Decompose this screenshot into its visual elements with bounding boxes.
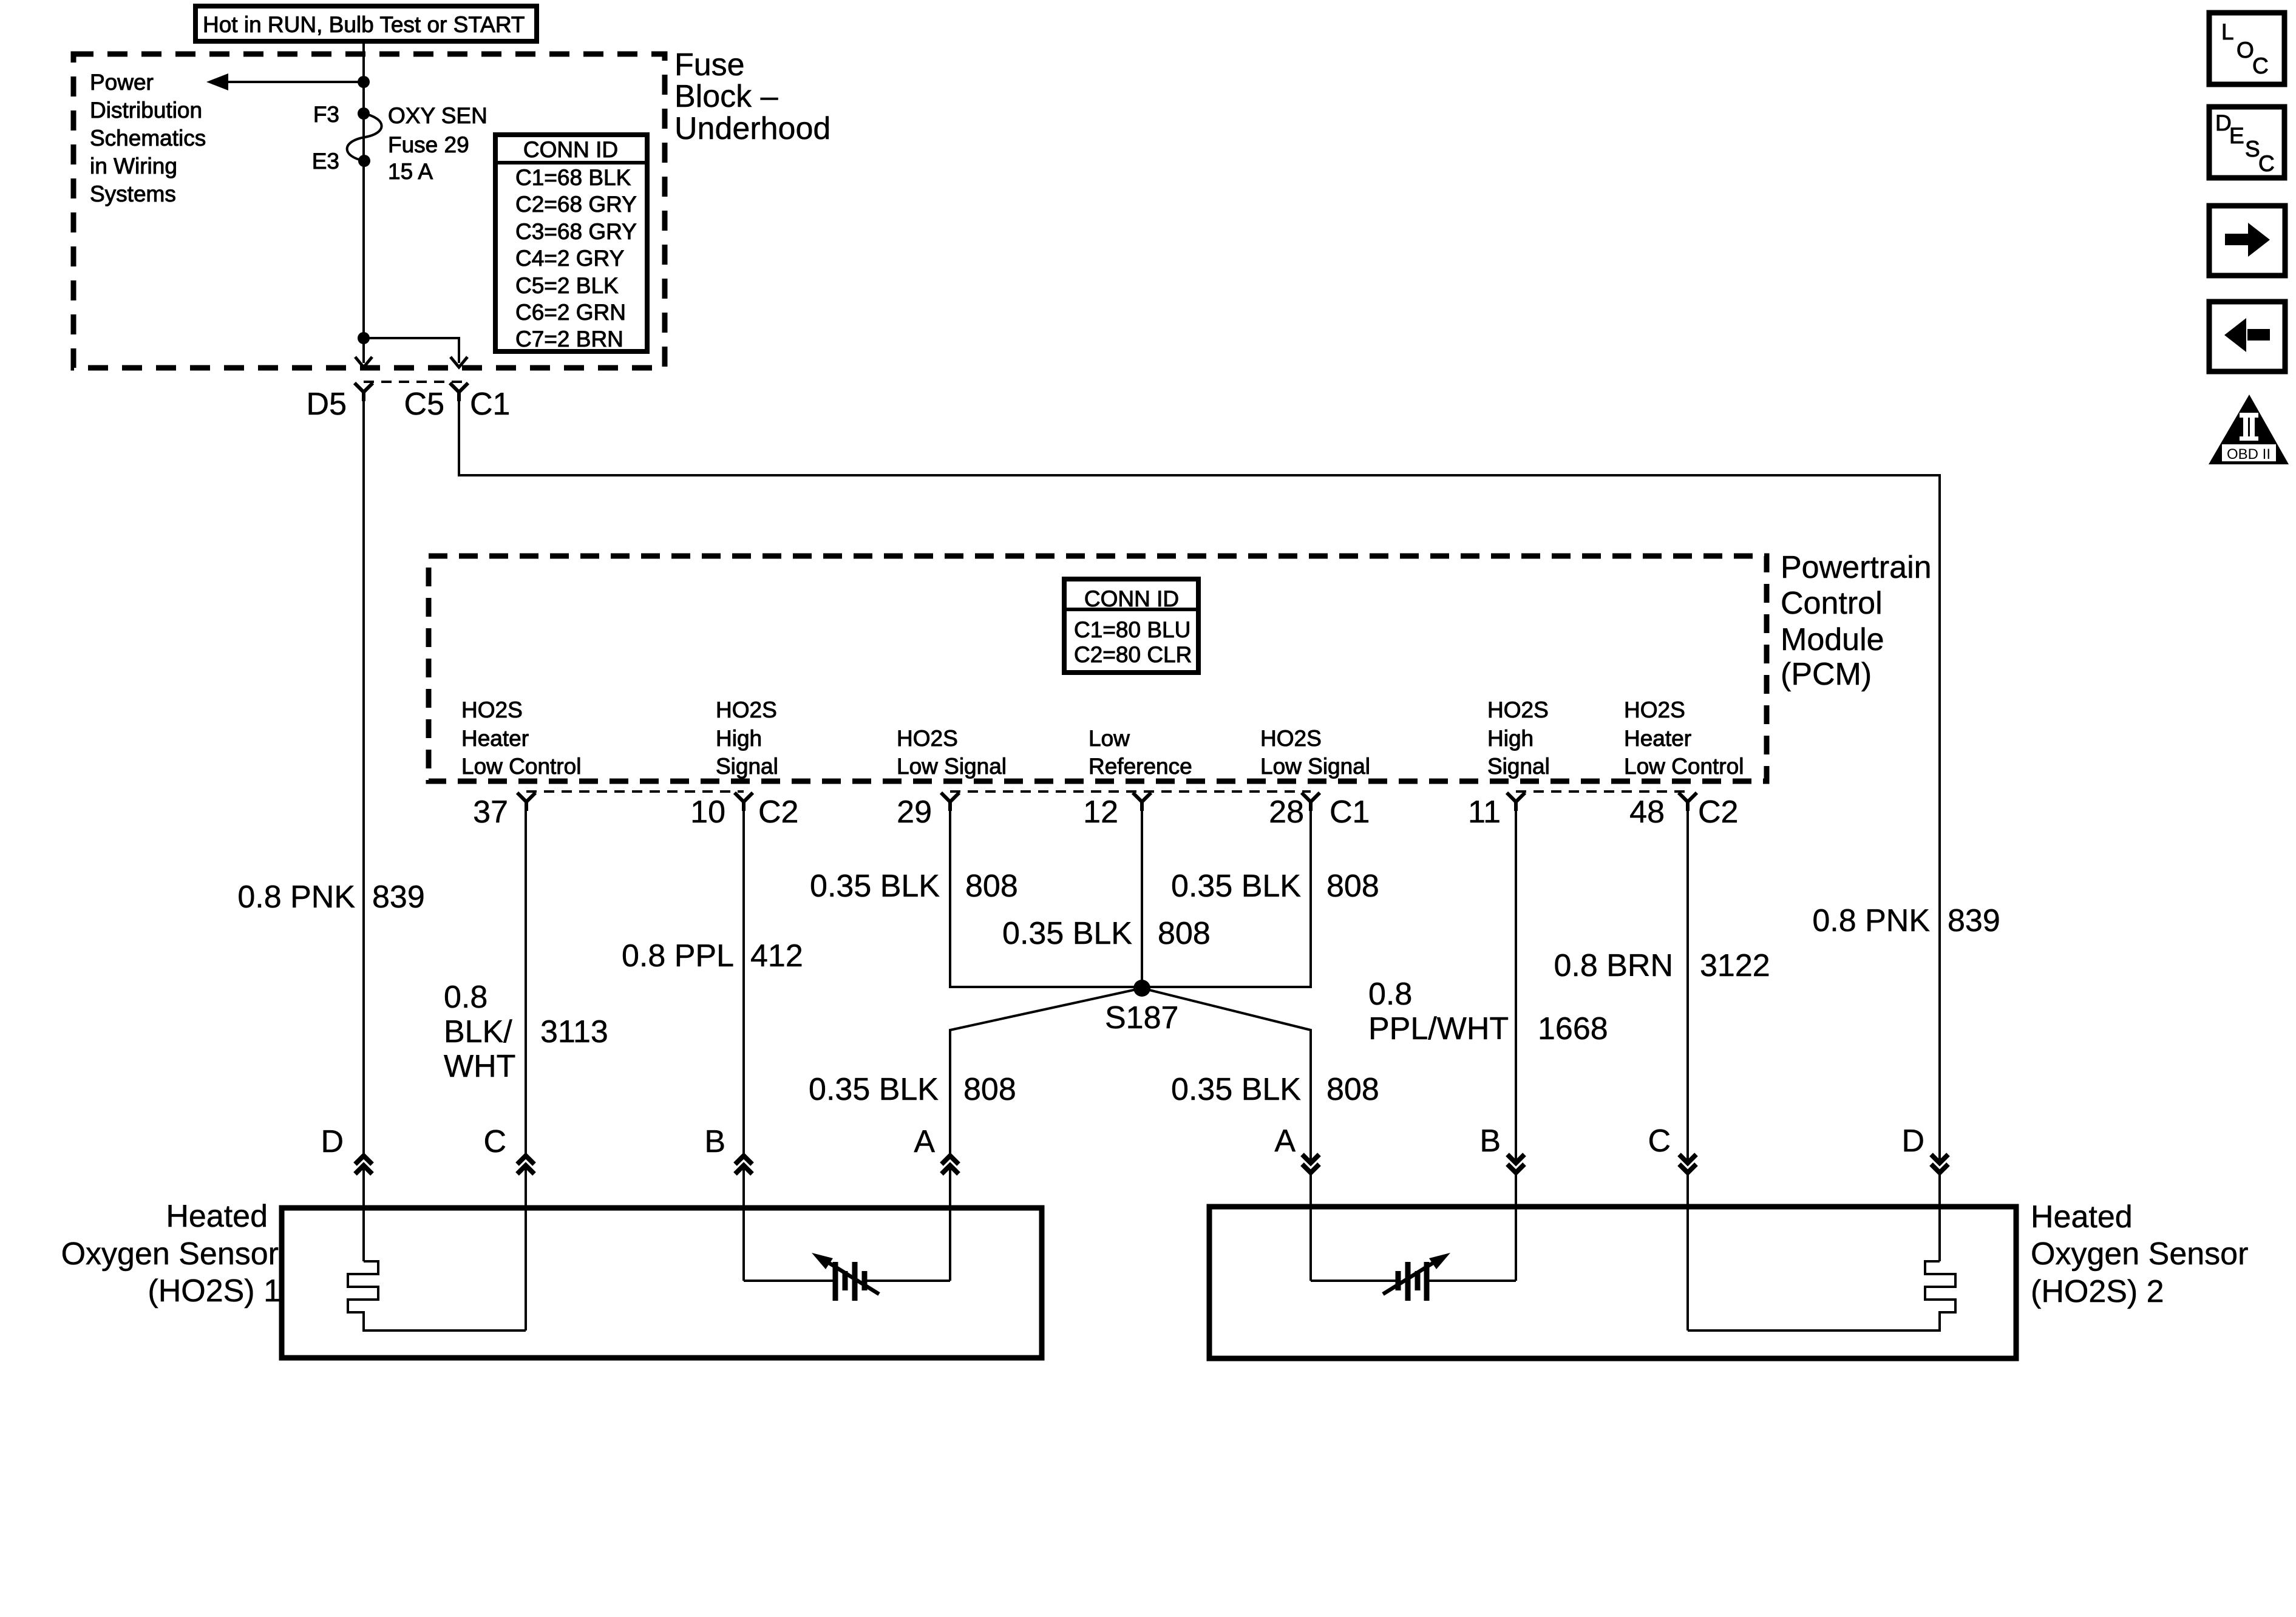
connector Y at C5/C1 xyxy=(450,383,468,401)
wire pin12 to S187 xyxy=(1141,811,1143,988)
label Power Distribution Schematics in Wiring Systems xyxy=(90,70,206,206)
svg-text:10: 10 xyxy=(690,795,725,830)
svg-text:HO2S: HO2S xyxy=(1624,697,1685,722)
hot-in-run box xyxy=(195,6,537,41)
svg-text:Heater: Heater xyxy=(1624,726,1691,751)
label Heated Oxygen Sensor (HO2S) 2 xyxy=(2031,1199,2248,1309)
pin label HO2S Heater Low Control (pin 48) xyxy=(1624,697,1744,779)
pin label Low Reference (pin 12) xyxy=(1089,726,1192,779)
svg-text:C1: C1 xyxy=(1330,795,1370,830)
chevrons down A2 xyxy=(1302,1154,1319,1173)
svg-text:C: C xyxy=(2258,151,2275,176)
svg-text:C6=2 GRN: C6=2 GRN xyxy=(515,300,626,325)
pin label HO2S Low Signal (pin 29) xyxy=(897,726,1007,779)
svg-text:808: 808 xyxy=(1326,1072,1379,1107)
label 0.35 BLK 808 lower left xyxy=(809,1072,1016,1107)
PCM connector dashed line C1 xyxy=(950,790,1311,793)
wire branch to C1 xyxy=(364,338,459,363)
svg-text:1668: 1668 xyxy=(1538,1011,1608,1046)
svg-text:C2: C2 xyxy=(1698,795,1738,830)
svg-text:Power: Power xyxy=(90,70,154,95)
wire A into box1 xyxy=(949,1169,951,1281)
svg-text:0.35 BLK: 0.35 BLK xyxy=(1171,1072,1301,1107)
fuse F29 symbol xyxy=(347,107,382,167)
wire S187 to A right xyxy=(1142,988,1311,1162)
svg-text:C1=68 BLK: C1=68 BLK xyxy=(515,165,631,190)
wire pin48 to C2 (0.8 BRN 3122) xyxy=(1686,811,1689,1162)
label Fuse Block - Underhood xyxy=(674,47,830,146)
svg-text:0.8 PNK: 0.8 PNK xyxy=(1812,903,1930,938)
wire pin10 to B (0.8 PPL 412) xyxy=(742,811,745,1154)
wire pin37 to C (0.8 BLK/WHT 3113) xyxy=(525,811,527,1154)
label 0.35 BLK 808 middle xyxy=(1002,916,1211,951)
svg-text:3122: 3122 xyxy=(1700,948,1770,983)
label 0.35 BLK 808 lower right xyxy=(1171,1072,1379,1107)
icon LOC xyxy=(2209,13,2284,84)
svg-text:Distribution: Distribution xyxy=(90,98,202,123)
svg-text:C: C xyxy=(483,1124,506,1159)
svg-text:Low: Low xyxy=(1089,726,1130,751)
svg-text:Low Control: Low Control xyxy=(461,754,581,779)
icon arrow right xyxy=(2209,206,2285,276)
svg-text:0.35 BLK: 0.35 BLK xyxy=(810,869,940,904)
svg-text:0.8: 0.8 xyxy=(444,980,487,1015)
label 0.8 PPL/WHT 1668 xyxy=(1368,977,1608,1046)
svg-text:0.35 BLK: 0.35 BLK xyxy=(1002,916,1132,951)
chevrons down D2 xyxy=(1931,1154,1948,1173)
fuse block dashed box xyxy=(73,54,665,368)
svg-text:HO2S: HO2S xyxy=(716,697,777,722)
splice S187 xyxy=(1133,980,1150,997)
svg-text:C5=2 BLK: C5=2 BLK xyxy=(515,273,619,298)
connector Y pin 29 xyxy=(941,793,959,811)
connector Y at D5 xyxy=(355,383,373,401)
svg-text:808: 808 xyxy=(963,1072,1016,1107)
wire B into box2 xyxy=(1515,1173,1517,1281)
svg-text:Systems: Systems xyxy=(90,181,176,206)
svg-text:HO2S: HO2S xyxy=(897,726,958,751)
heater element HO2S1 xyxy=(348,1261,526,1331)
CONN ID table PCM xyxy=(1064,579,1198,673)
svg-text:Powertrain: Powertrain xyxy=(1781,550,1932,585)
label Powertrain Control Module (PCM) xyxy=(1781,550,1932,692)
svg-text:0.8 PNK: 0.8 PNK xyxy=(237,880,355,915)
chevrons up A xyxy=(942,1156,959,1174)
svg-text:Reference: Reference xyxy=(1089,754,1192,779)
svg-text:Low Signal: Low Signal xyxy=(897,754,1007,779)
svg-text:OXY SEN: OXY SEN xyxy=(388,103,487,128)
svg-text:C1=80 BLU: C1=80 BLU xyxy=(1074,617,1190,642)
svg-text:PPL/WHT: PPL/WHT xyxy=(1368,1011,1509,1046)
connector line D5/C5 xyxy=(364,381,463,383)
label 0.8 PPL 412 xyxy=(622,938,803,974)
svg-text:Low Control: Low Control xyxy=(1624,754,1744,779)
svg-text:A: A xyxy=(914,1124,935,1159)
label 0.8 PNK 839 left xyxy=(237,880,424,915)
label OXY SEN Fuse 29 15 A xyxy=(388,103,487,184)
CONN ID table fuse block xyxy=(495,135,647,351)
label 0.35 BLK 808 upper right xyxy=(1171,869,1379,904)
wire C into box2 xyxy=(1686,1173,1689,1331)
chevrons up B xyxy=(735,1156,752,1174)
svg-text:Oxygen Sensor: Oxygen Sensor xyxy=(2031,1236,2248,1272)
wire A into box2 xyxy=(1309,1173,1312,1281)
icon OBD II triangle xyxy=(2209,395,2289,464)
svg-text:S: S xyxy=(2245,137,2260,161)
arrowhead into connector right xyxy=(450,357,467,367)
icon arrow left xyxy=(2209,302,2285,371)
svg-text:CONN ID: CONN ID xyxy=(1084,586,1179,611)
svg-text:Block –: Block – xyxy=(674,79,778,114)
svg-text:29: 29 xyxy=(897,795,932,830)
wire pin11 to B2 (0.8 PPL/WHT 1668) xyxy=(1515,811,1517,1162)
connector Y pin 28 xyxy=(1302,793,1320,811)
svg-text:C3=68 GRY: C3=68 GRY xyxy=(515,219,637,244)
svg-text:Fuse: Fuse xyxy=(674,47,745,83)
svg-text:E: E xyxy=(2229,123,2244,148)
arrowhead into connector left xyxy=(355,357,372,367)
svg-text:C: C xyxy=(2252,53,2269,78)
svg-text:B: B xyxy=(1479,1124,1501,1159)
icon DESC xyxy=(2209,107,2284,178)
connector Y pin 37 xyxy=(517,793,535,811)
HO2S 2 box xyxy=(1209,1207,2016,1358)
svg-text:Underhood: Underhood xyxy=(674,111,830,146)
svg-text:D: D xyxy=(321,1124,344,1159)
svg-text:D: D xyxy=(1901,1124,1924,1159)
label 0.8 BLK/WHT 3113 xyxy=(444,980,608,1084)
svg-text:28: 28 xyxy=(1269,795,1304,830)
svg-text:C2=80 CLR: C2=80 CLR xyxy=(1074,642,1192,667)
svg-text:808: 808 xyxy=(1326,869,1379,904)
wire pin28 to S187 xyxy=(1142,811,1311,987)
svg-text:C2=68 GRY: C2=68 GRY xyxy=(515,192,637,217)
wire D into box1 xyxy=(362,1169,365,1261)
svg-text:High: High xyxy=(1487,726,1533,751)
svg-text:12: 12 xyxy=(1083,795,1118,830)
svg-text:Signal: Signal xyxy=(716,754,778,779)
svg-text:3113: 3113 xyxy=(540,1014,608,1049)
svg-text:CONN ID: CONN ID xyxy=(523,137,618,162)
svg-text:Oxygen Sensor: Oxygen Sensor xyxy=(61,1236,279,1272)
svg-text:in Wiring: in Wiring xyxy=(90,154,177,178)
PCM dashed box xyxy=(429,556,1767,781)
label Heated Oxygen Sensor (HO2S) 1 xyxy=(61,1199,281,1309)
svg-text:839: 839 xyxy=(1948,903,2000,938)
svg-text:48: 48 xyxy=(1629,795,1665,830)
svg-text:L: L xyxy=(2221,19,2234,44)
svg-text:Signal: Signal xyxy=(1487,754,1550,779)
svg-text:OBD II: OBD II xyxy=(2227,446,2271,463)
wire pin29 to S187 xyxy=(950,811,1142,987)
chevrons down C2 xyxy=(1679,1154,1696,1173)
wire B into box1 xyxy=(742,1169,745,1281)
connector Y pin 48 xyxy=(1679,793,1697,811)
pin label HO2S Heater Low Control (pin 37) xyxy=(461,697,581,779)
svg-text:C1: C1 xyxy=(470,387,510,422)
pin label HO2S High Signal (pin 10) xyxy=(716,697,778,779)
svg-text:37: 37 xyxy=(473,795,508,830)
HO2S 1 box xyxy=(282,1208,1042,1358)
arrow to power distribution xyxy=(206,73,364,90)
svg-text:Heated: Heated xyxy=(166,1199,268,1234)
svg-text:15 A: 15 A xyxy=(388,159,433,184)
wire from hot box down xyxy=(362,42,365,338)
svg-text:Heater: Heater xyxy=(461,726,529,751)
junction node to arrow xyxy=(358,76,370,88)
svg-text:C4=2 GRY: C4=2 GRY xyxy=(515,246,624,271)
chevrons up D xyxy=(355,1156,372,1174)
PCM connector dashed line C2 left xyxy=(526,790,744,793)
pin label HO2S High Signal (pin 11) xyxy=(1487,697,1550,779)
sensor element HO2S1 xyxy=(744,1253,950,1301)
svg-text:(HO2S) 1: (HO2S) 1 xyxy=(148,1273,281,1309)
svg-text:0.35 BLK: 0.35 BLK xyxy=(809,1072,939,1107)
PCM connector dashed line C2 right xyxy=(1516,790,1688,793)
svg-text:S187: S187 xyxy=(1105,1000,1178,1036)
svg-text:B: B xyxy=(704,1124,725,1159)
svg-text:(HO2S) 2: (HO2S) 2 xyxy=(2031,1274,2164,1309)
label 0.8 BRN 3122 xyxy=(1554,948,1770,983)
svg-text:High: High xyxy=(716,726,762,751)
chevrons up C xyxy=(517,1156,534,1174)
svg-text:Control: Control xyxy=(1781,586,1883,621)
svg-text:C2: C2 xyxy=(758,795,798,830)
svg-text:11: 11 xyxy=(1468,795,1501,830)
wire C into box1 xyxy=(525,1169,527,1331)
svg-text:0.35 BLK: 0.35 BLK xyxy=(1171,869,1301,904)
wire S187 to A left xyxy=(950,988,1142,1154)
svg-text:0.8 PPL: 0.8 PPL xyxy=(622,938,734,974)
pin label HO2S Low Signal (pin 28) xyxy=(1260,726,1370,779)
label 0.35 BLK 808 upper left xyxy=(810,869,1018,904)
svg-text:D5: D5 xyxy=(307,387,347,422)
svg-text:A: A xyxy=(1274,1124,1296,1159)
svg-text:E3: E3 xyxy=(312,149,339,174)
svg-text:C: C xyxy=(1648,1124,1671,1159)
connector Y pin 12 xyxy=(1133,793,1151,811)
svg-text:0.8: 0.8 xyxy=(1368,977,1412,1012)
svg-text:C5: C5 xyxy=(404,387,444,422)
wire C1 across top to right side xyxy=(459,401,1940,1162)
svg-text:BLK/: BLK/ xyxy=(444,1014,512,1049)
connector Y pin 10 xyxy=(735,793,753,811)
svg-text:Module: Module xyxy=(1781,622,1884,657)
svg-text:0.8 BRN: 0.8 BRN xyxy=(1554,948,1673,983)
svg-text:C7=2 BRN: C7=2 BRN xyxy=(515,327,623,351)
svg-text:Hot in RUN, Bulb Test or START: Hot in RUN, Bulb Test or START xyxy=(203,12,525,37)
svg-text:HO2S: HO2S xyxy=(461,697,523,722)
svg-text:HO2S: HO2S xyxy=(1260,726,1322,751)
connector Y pin 11 xyxy=(1507,793,1525,811)
svg-text:O: O xyxy=(2237,38,2254,63)
svg-text:Heated: Heated xyxy=(2031,1199,2133,1235)
sensor element HO2S2 xyxy=(1311,1253,1516,1301)
svg-text:Fuse 29: Fuse 29 xyxy=(388,132,469,157)
svg-text:Schematics: Schematics xyxy=(90,126,206,151)
svg-text:839: 839 xyxy=(372,880,425,915)
junction node branch xyxy=(358,332,370,344)
label 0.8 PNK 839 right xyxy=(1812,903,2000,938)
chevrons down B2 xyxy=(1507,1154,1524,1173)
svg-text:808: 808 xyxy=(965,869,1018,904)
svg-text:808: 808 xyxy=(1158,916,1211,951)
svg-text:HO2S: HO2S xyxy=(1487,697,1549,722)
wire D5 down (0.8 PNK 839) xyxy=(362,401,365,1154)
svg-text:WHT: WHT xyxy=(444,1049,515,1084)
svg-text:F3: F3 xyxy=(313,102,339,127)
heater element HO2S2 xyxy=(1688,1261,1955,1331)
svg-text:(PCM): (PCM) xyxy=(1781,657,1872,692)
wire D into box2 xyxy=(1938,1173,1941,1261)
svg-text:412: 412 xyxy=(750,938,803,974)
svg-text:Low Signal: Low Signal xyxy=(1260,754,1370,779)
